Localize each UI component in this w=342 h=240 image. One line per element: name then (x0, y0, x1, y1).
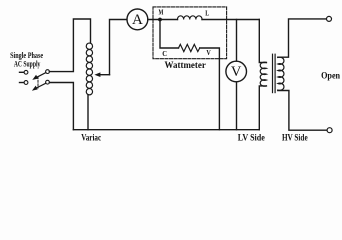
wattmeter enclosure dashed box (153, 7, 227, 59)
svg-text:A: A (132, 12, 143, 28)
svg-text:M: M (159, 9, 164, 17)
switch S2 blade with arrowhead (32, 83, 46, 91)
HV open terminal top (327, 16, 332, 21)
wattmeter pressure coil resistor C-V (179, 44, 200, 51)
bottom rail wire (73, 129, 259, 131)
svg-text:LV Side: LV Side (238, 133, 265, 143)
variac wiper arrow (94, 72, 109, 77)
wire: variac winding bottom to bottom rail (87, 95, 89, 130)
switch S1 fixed contact (46, 70, 50, 74)
transformer LV winding (260, 62, 266, 86)
svg-text:V: V (206, 48, 211, 57)
label: Single Phase AC Supply (10, 51, 43, 68)
supply terminal T1 (20, 70, 28, 74)
wire: L terminal to LV side top (202, 19, 259, 21)
voltmeter V1 (226, 61, 247, 82)
switch gang link (dashed) (37, 77, 39, 89)
wire: ammeter to wattmeter M terminal (148, 19, 178, 21)
svg-text:C: C (162, 49, 167, 58)
svg-text:AC Supply: AC Supply (14, 59, 41, 68)
wire: HV winding top to open terminal (278, 19, 326, 57)
wire: HV winding bottom to open terminal (278, 91, 327, 131)
wire: voltmeter to bottom rail (236, 82, 238, 130)
svg-text:Wattmeter: Wattmeter (165, 60, 206, 70)
svg-text:HV Side: HV Side (282, 132, 308, 142)
wire: wiper to ammeter (110, 20, 127, 75)
svg-text:Variac: Variac (81, 133, 101, 143)
wire: switch S1 to variac winding top (49, 19, 90, 72)
svg-text:Open: Open (321, 71, 340, 81)
wire: V terminal down to bottom rail (200, 48, 220, 130)
wire: top wire tap to voltmeter (236, 20, 238, 62)
switch S2 fixed contact (46, 80, 50, 84)
transformer HV winding (278, 57, 284, 90)
svg-text:V: V (231, 64, 242, 80)
HV open terminal bottom (327, 128, 332, 133)
switch S1 blade with arrowhead (32, 73, 46, 80)
supply terminal T2 (20, 81, 28, 85)
transformer core (273, 54, 276, 92)
node M junction dot (158, 18, 162, 22)
variac winding (coil) (86, 43, 92, 95)
wire: LV winding bottom to bottom rail (259, 86, 266, 130)
wattmeter current coil inductor M-L (177, 16, 202, 20)
wire: LV side left vertical (top) (259, 20, 266, 63)
ammeter A1 (127, 9, 148, 30)
wire: switch S2 to bottom rail (49, 83, 73, 130)
wattmeter pressure branch M to C (160, 20, 179, 49)
svg-text:L: L (205, 9, 209, 18)
